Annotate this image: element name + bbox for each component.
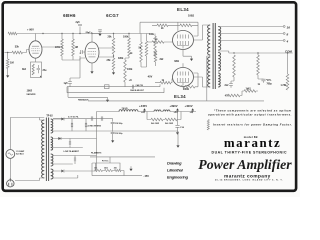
node arrow +C <box>191 108 194 110</box>
wire V3 cathode to ground <box>183 50 192 57</box>
power transformer T1 primary winding <box>42 120 45 178</box>
svg-text:CAB IN ADJUST: CAB IN ADJUST <box>130 89 145 92</box>
wire secondary common <box>218 51 293 53</box>
AC plug P1 <box>9 178 11 182</box>
svg-text:version: version <box>27 93 36 96</box>
svg-text:LOW FILAMENT: LOW FILAMENT <box>64 150 80 153</box>
resistor 2k2 divider <box>154 51 157 62</box>
capacitor 25u cathode bypass <box>37 68 40 70</box>
svg-text:25k: 25k <box>114 167 117 169</box>
resistor 100k right column <box>154 36 157 56</box>
wire feedback line B <box>88 100 264 102</box>
wire bias top rail <box>90 156 155 158</box>
tube V3 EL34 envelope <box>173 31 194 50</box>
component box on bias rail <box>105 85 110 89</box>
choke L3 <box>163 110 170 112</box>
fuse F1 1-1/2 amp slo-blo <box>6 150 15 159</box>
wire bias mid rail <box>92 162 120 164</box>
svg-text:marantz company: marantz company <box>224 173 271 178</box>
wire low filament pair <box>53 156 97 165</box>
wire V1 plate coupling <box>42 46 62 48</box>
svg-text:25µF +: 25µF + <box>86 32 94 34</box>
wire screen rail top <box>140 22 198 33</box>
power transformer T1 bias winding <box>51 169 53 179</box>
svg-text:8: 8 <box>287 32 289 36</box>
svg-text:marantz: marantz <box>224 136 281 150</box>
resistor 47k <box>228 94 240 97</box>
wire grid V4 <box>155 79 173 83</box>
resistor 5k6 dropper B <box>165 118 177 121</box>
svg-text:Drawing: Drawing <box>167 161 182 166</box>
resistor on +90V rail <box>8 32 17 35</box>
svg-text:5k6 10W: 5k6 10W <box>165 123 173 125</box>
capacitor doubler B <box>85 123 87 127</box>
capacitor 2u5 rail bypass <box>79 27 81 34</box>
resistor 1k78 to COM <box>286 74 289 90</box>
svg-text:78.5Ω: 78.5Ω <box>122 108 128 110</box>
ground C16 <box>177 130 179 133</box>
svg-text:700p: 700p <box>267 83 273 85</box>
tube V1 6BH6 envelope <box>29 41 42 58</box>
svg-text:100k: 100k <box>123 35 129 38</box>
wire fuse to plug <box>9 158 11 177</box>
wire secondary tap 4 ohm <box>220 40 283 42</box>
svg-text:Power Amplifier: Power Amplifier <box>198 157 292 172</box>
svg-text:25u: 25u <box>43 70 48 72</box>
wire V1 plate to rail <box>35 34 37 41</box>
svg-text:100k: 100k <box>149 34 155 36</box>
bias resistor block B <box>105 169 113 171</box>
ground below 1M <box>7 73 9 76</box>
svg-text:1k62: 1k62 <box>246 89 252 91</box>
rectifier cap symbol B <box>101 116 103 120</box>
svg-text:100Ω: 100Ω <box>183 88 189 91</box>
wire V3 plate to OT <box>194 25 211 40</box>
cathode network box 1963 <box>31 62 42 78</box>
svg-text:FEEDBACK: FEEDBACK <box>78 100 89 102</box>
wire input from left <box>5 52 13 54</box>
rectifier diode D4 bias <box>61 169 64 172</box>
bias resistor block C <box>115 169 122 171</box>
wire mains neutral <box>15 178 44 181</box>
bias resistor block A <box>95 169 103 171</box>
wire secondary tap 16 ohm <box>218 26 283 28</box>
svg-text:C18 500µ: C18 500µ <box>115 123 122 125</box>
capacitor row3 filter <box>74 158 76 162</box>
junction dots B+ rail <box>144 111 145 112</box>
wire V4 plate to OT <box>194 77 211 87</box>
capacitor doubler A <box>71 123 73 127</box>
svg-text:25k: 25k <box>108 35 113 38</box>
wire V4 screen bus <box>194 73 199 80</box>
junction dot +90V <box>42 33 43 34</box>
wire OT center tap <box>207 56 210 101</box>
svg-text:1M: 1M <box>75 46 78 49</box>
wire bias rail upper <box>67 86 160 88</box>
svg-text:operation with particular out: operation with particular output transfo… <box>208 112 292 116</box>
node arrow +B <box>176 108 179 110</box>
wire grid V3 <box>148 41 173 43</box>
rectifier cap symbol A <box>91 116 93 120</box>
terminal 16 ohm <box>283 26 285 28</box>
resistor 25k lower <box>112 58 115 70</box>
wire EL34 mid connection <box>182 55 184 67</box>
wire V2 plate to 25k <box>99 48 106 57</box>
svg-text:33k: 33k <box>15 45 20 48</box>
resistor 100k divider top <box>128 38 131 56</box>
svg-text:Lilienthal: Lilienthal <box>167 168 184 173</box>
svg-text:6BH6: 6BH6 <box>63 13 76 18</box>
wire +90V rail <box>17 33 150 35</box>
ground V2 cathode <box>91 63 93 69</box>
wire bias bottom rail to -45V <box>92 175 142 177</box>
wire HV return to ground arrow <box>97 131 179 143</box>
svg-text:1 1/2 AMP: 1 1/2 AMP <box>16 150 25 153</box>
resistor 330k divider lower <box>124 60 127 82</box>
output transformer T2 primary winding <box>208 25 211 55</box>
wire coupling to V2 grid <box>62 56 80 60</box>
svg-text:EL34: EL34 <box>174 94 186 99</box>
wire V3 screen cathode <box>194 31 199 36</box>
resistor 1k grid stopper V4 <box>160 81 171 84</box>
svg-text:330k: 330k <box>118 57 124 60</box>
wire droppers <box>147 112 181 120</box>
ground V3 cathode <box>191 56 193 59</box>
svg-text:SLO BLO: SLO BLO <box>16 153 25 155</box>
resistor 100R cathode V4 <box>181 86 195 89</box>
capacitor C19 filter <box>112 124 114 132</box>
capacitor 2n2 <box>233 77 235 81</box>
svg-text:1M: 1M <box>10 61 14 65</box>
resistor 220k V1 plate load <box>61 39 64 56</box>
svg-text:+ 90V: + 90V <box>27 27 34 31</box>
resistor 33k series grid <box>12 51 23 54</box>
vertical bus right of T1 <box>95 112 98 172</box>
svg-text:+390V: +390V <box>170 104 178 108</box>
svg-text:Inseret resistors for power Da: Inseret resistors for power Damping Fact… <box>213 123 292 127</box>
svg-text:6.3 RECTIFIERS: 6.3 RECTIFIERS <box>87 125 102 127</box>
svg-text:1µ5: 1µ5 <box>64 82 69 85</box>
svg-text:+445V: +445V <box>139 104 147 108</box>
junction dots on rail <box>61 33 62 34</box>
wire V4 cathode <box>183 80 198 87</box>
svg-text:33k: 33k <box>94 167 97 169</box>
power transformer T1 6.3V winding <box>51 137 53 150</box>
svg-text:25-14 BROADWAY, LONG ISLAND: 25-14 BROADWAY, LONG ISLAND CITY 6, N. Y… <box>215 179 283 182</box>
junction dot cathode box <box>40 76 41 77</box>
capacitor 170-700p trimmer <box>257 75 259 79</box>
svg-text:25k: 25k <box>107 59 112 62</box>
svg-text:4: 4 <box>286 39 289 43</box>
svg-text:+400V: +400V <box>185 104 193 108</box>
capacitor 1u5 top coupling <box>81 50 83 54</box>
wire V1 cathode down <box>35 58 37 62</box>
ground screen cap arrow <box>99 31 101 34</box>
wire mains hot to primary <box>10 118 44 150</box>
svg-text:100k: 100k <box>127 68 133 71</box>
ground C18 C19 <box>112 134 114 138</box>
ground bias network <box>130 166 132 169</box>
wire HV secondary bottom <box>53 130 97 132</box>
rectifier diode D2 <box>61 117 64 120</box>
power transformer T1 low filament winding <box>51 154 53 166</box>
power transformer T1 core <box>46 118 48 182</box>
choke L1 filter <box>119 110 138 112</box>
resistor 5k mid <box>140 42 143 62</box>
wire plate junctions <box>106 48 114 57</box>
resistor 3k2 cathode <box>32 64 34 75</box>
tube V4 EL34 envelope <box>173 68 194 87</box>
wire bias rail lower <box>67 92 164 94</box>
capacitor 1u5 lower coupling <box>80 58 85 78</box>
resistor feedback divider A <box>233 55 236 77</box>
svg-text:DUAL THIRTY-FIVE STEREOPHONIC: DUAL THIRTY-FIVE STEREOPHONIC <box>212 151 288 155</box>
terminal 4 ohm <box>283 40 285 42</box>
capacitor 25uF screen bypass <box>92 34 100 43</box>
resistor 5k6 dropper A <box>151 118 163 121</box>
resistor 100R screen V3 <box>180 24 192 27</box>
ground arrow feedback <box>107 97 109 100</box>
resistor divider to -45V <box>145 41 148 56</box>
wire 33k to grid <box>23 50 30 53</box>
resistor 1k grid stopper V3 <box>152 41 164 44</box>
wire primary top stub <box>40 118 43 121</box>
output transformer T2 core <box>213 23 215 89</box>
resistor 1M input load <box>7 53 9 60</box>
svg-text:220k: 220k <box>55 46 61 49</box>
wire B+ rail <box>97 111 197 113</box>
svg-text:FILAMENTS: FILAMENTS <box>91 151 102 154</box>
output transformer T2 secondary winding <box>218 27 221 51</box>
svg-text:6CG7: 6CG7 <box>106 13 119 18</box>
resistor 2k screen top <box>157 24 168 27</box>
choke L2 <box>154 110 161 112</box>
rectifier diode D5 row2 <box>58 137 61 140</box>
resistor 25k plate upper <box>112 38 115 54</box>
junction feedback node <box>233 52 234 53</box>
svg-text:EL34: EL34 <box>177 7 189 12</box>
capacitor C18 filter <box>112 119 114 122</box>
svg-text:TP-92: TP-92 <box>46 115 53 117</box>
svg-text:-45V: -45V <box>147 76 153 79</box>
schematic border frame <box>3 2 296 191</box>
wire 6.3V dc line <box>53 118 113 120</box>
svg-text:3k2: 3k2 <box>22 68 27 71</box>
svg-text:COM: COM <box>285 49 292 53</box>
svg-text:ADJ: ADJ <box>104 166 108 169</box>
squiggle left of note <box>207 120 209 131</box>
tube V2 6CG7 envelope <box>85 42 99 63</box>
wire bias winding return <box>53 175 78 178</box>
wire bias verticals <box>92 157 124 176</box>
terminal 8 ohm <box>283 33 285 35</box>
power transformer T1 HV secondary winding <box>51 119 53 133</box>
resistor feedback divider B <box>257 55 260 75</box>
resistor 1k62 <box>244 90 256 93</box>
svg-text:100Ω: 100Ω <box>188 14 194 17</box>
svg-text:2µ5: 2µ5 <box>76 21 81 24</box>
capacitor on bias rail <box>132 85 133 89</box>
node arrow +A <box>143 108 146 110</box>
svg-text:*170-: *170- <box>266 80 272 82</box>
svg-text:POT 1k: POT 1k <box>102 161 109 163</box>
resistor 1M coupling load <box>72 39 75 56</box>
svg-text:1.78k: 1.78k <box>281 85 287 87</box>
wire feedback line A <box>68 87 108 97</box>
svg-text:6.3 V DC FIL: 6.3 V DC FIL <box>68 116 79 118</box>
wire secondary tap 8 ohm <box>220 33 283 35</box>
wire HV secondary top <box>52 118 54 120</box>
svg-text:68Ω: 68Ω <box>174 60 179 63</box>
wire 6.3V filament pair <box>53 139 97 148</box>
capacitor row2 filter <box>69 141 71 145</box>
svg-text:- 45V: - 45V <box>143 175 149 178</box>
svg-text:Engineering: Engineering <box>167 175 189 180</box>
ground 25k lower <box>113 70 115 73</box>
capacitor C16 filter <box>177 112 179 126</box>
svg-text:5k6 10W: 5k6 10W <box>151 123 159 125</box>
wire mid connections <box>125 55 155 87</box>
ground arrow HV return <box>177 143 179 146</box>
svg-text:CAB 750: CAB 750 <box>136 84 143 87</box>
svg-text:16: 16 <box>287 25 291 29</box>
svg-text:C19 500µ: C19 500µ <box>115 133 122 135</box>
